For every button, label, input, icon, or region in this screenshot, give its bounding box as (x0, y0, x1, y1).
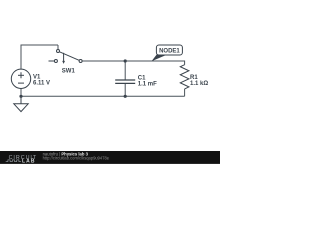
svg-text:SW1: SW1 (62, 68, 76, 74)
wire R1 bottom lead (184, 89, 186, 96)
ground (14, 96, 28, 111)
svg-text:LAB: LAB (22, 158, 36, 164)
resistor R1 (180, 65, 208, 89)
wire bottom rail (21, 88, 185, 96)
svg-text:1.1 kΩ: 1.1 kΩ (190, 81, 208, 87)
wire C1 top lead (124, 61, 126, 80)
switch SW1 (49, 50, 83, 75)
junction bottom of C1 (124, 95, 127, 98)
voltage source V1 (11, 69, 50, 88)
footer bar (0, 151, 220, 164)
svg-text:1.1 mF: 1.1 mF (138, 81, 157, 87)
svg-text:http://circuitlab.com/c/ksqap9: http://circuitlab.com/c/ksqap9u9478e (43, 156, 110, 161)
junction top of C1 (124, 59, 127, 62)
wire top rail (82, 61, 184, 65)
wire V1 top lead (20, 45, 22, 69)
CircuitLab logo (6, 155, 37, 164)
svg-text:6.11 V: 6.11 V (33, 80, 50, 86)
node label NODE1 (152, 45, 183, 61)
capacitor C1 (115, 75, 157, 87)
svg-text:NODE1: NODE1 (159, 48, 180, 54)
wire switch feed drop (57, 45, 59, 49)
wire top-left rail (21, 44, 59, 46)
junction ground node (19, 95, 22, 98)
wire C1 bottom lead (124, 83, 126, 96)
